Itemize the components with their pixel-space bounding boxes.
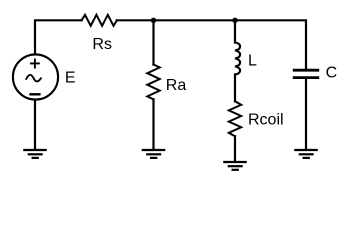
wire (234, 20, 236, 42)
resistor Ra (147, 65, 159, 100)
svg-text:Ra: Ra (166, 77, 187, 94)
svg-text:L: L (248, 53, 257, 70)
AC source E (13, 54, 58, 99)
resistor Rcoil (229, 101, 241, 136)
ground (142, 150, 166, 158)
capacitor C (293, 70, 319, 77)
wire (305, 79, 307, 149)
wire (35, 20, 82, 54)
wire (34, 100, 36, 149)
inductor L (235, 43, 240, 75)
wire (152, 99, 154, 149)
wire (234, 136, 236, 161)
ground (294, 150, 318, 158)
svg-text:C: C (326, 64, 338, 81)
svg-text:E: E (65, 70, 76, 87)
svg-text:Rcoil: Rcoil (248, 112, 284, 129)
node A (151, 18, 156, 23)
resistor Rs (82, 15, 117, 26)
wire (117, 20, 306, 69)
wire (152, 20, 154, 64)
node B (232, 18, 237, 23)
wire (234, 75, 236, 102)
ground (223, 162, 247, 170)
ground (23, 150, 47, 158)
svg-text:Rs: Rs (92, 36, 112, 53)
